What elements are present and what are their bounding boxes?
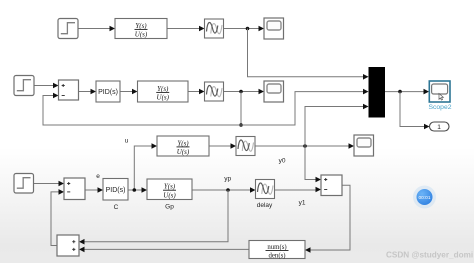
wire rsum out to numden: [311, 185, 351, 250]
wire bsum out to sum4 minus: [51, 192, 59, 246]
wire sine2 to scope row2: [224, 91, 259, 93]
transfer fcn TF3 Y(s)/U(s): [157, 136, 209, 156]
node y0 branch: [303, 144, 307, 148]
wire Gp to delay: [192, 189, 250, 191]
PID controller PID4 C: [103, 179, 128, 201]
wire mux to Scope2: [385, 91, 424, 93]
wire step2 to sum2: [34, 85, 53, 87]
scope Scope3: [354, 135, 374, 156]
wire step1 to TF1: [78, 28, 110, 30]
transfer fcn numden: [249, 241, 305, 260]
wire u branch to TF3: [134, 146, 151, 190]
transfer fcn Gp Y(s)/U(s): [147, 179, 192, 200]
node row2 branch: [239, 90, 243, 94]
node row1 branch: [246, 27, 250, 31]
output port 1: [430, 122, 450, 131]
sum block bsum: [57, 235, 79, 256]
wire sum4 to PID4: [85, 189, 98, 191]
svg-text:U(s): U(s): [177, 148, 190, 156]
sum block sum2: [59, 80, 79, 100]
scope Scope row2: [264, 81, 284, 102]
svg-text:y1: y1: [299, 199, 306, 206]
sine block ZOH1: [205, 19, 224, 38]
sine block delay: [256, 180, 275, 199]
wire PID2 to TF2: [120, 91, 132, 93]
scope Scope2 selected: [429, 81, 450, 102]
wire row2 feedback to sum2 minus: [43, 96, 241, 126]
step source 2: [14, 76, 34, 96]
svg-text:u: u: [125, 138, 129, 145]
step source 1: [58, 19, 78, 39]
PID controller PID2: [96, 81, 120, 102]
wire step3 to sum4: [34, 183, 59, 185]
transfer fcn TF1 Y(s)/U(s): [115, 19, 167, 39]
svg-text:U(s): U(s): [157, 94, 170, 102]
svg-text:e: e: [96, 173, 100, 180]
wire TF3 to sine3: [209, 145, 231, 147]
svg-text:C: C: [114, 204, 119, 211]
node u junction: [133, 188, 137, 192]
wire yp down to bsum top: [85, 190, 229, 242]
svg-text:Y(s): Y(s): [177, 139, 189, 147]
sum block rsum: [321, 175, 342, 196]
transfer fcn TF2 Y(s)/U(s): [138, 81, 189, 102]
svg-text:y0: y0: [279, 158, 286, 165]
wire y0 branch to rsum plus: [305, 146, 316, 180]
svg-text:den(s): den(s): [269, 253, 286, 260]
sine block ZOH2: [205, 82, 224, 101]
sum block sum4: [64, 178, 85, 200]
mux Mux1: [369, 67, 386, 118]
step source 3: [14, 174, 34, 194]
svg-text:num(s): num(s): [267, 244, 286, 251]
wire delay to rsum minus: [275, 189, 316, 191]
svg-text:Gp: Gp: [165, 204, 174, 211]
wire row1 branch to mux in1: [248, 29, 364, 77]
recording badge 00:01: [413, 186, 436, 209]
svg-text:U(s): U(s): [135, 31, 148, 39]
svg-text:delay: delay: [257, 202, 273, 209]
svg-text:U(s): U(s): [163, 191, 176, 199]
node yp junction: [226, 188, 230, 192]
svg-text:1: 1: [437, 124, 441, 131]
svg-text:CSDN @studyer_domi: CSDN @studyer_domi: [386, 251, 473, 260]
wire TF1 to sine1: [167, 28, 199, 30]
svg-text:00:01: 00:01: [418, 195, 430, 201]
wire TF2 to sine2: [188, 91, 199, 93]
svg-text:yp: yp: [224, 176, 231, 183]
wire row2 branch down: [240, 92, 242, 126]
wire sine1 to Scope1: [224, 28, 259, 30]
sine block ZOH3: [236, 137, 255, 156]
svg-text:Y(s): Y(s): [164, 183, 176, 191]
svg-text:PID(s): PID(s): [106, 187, 126, 194]
wire numden out to bsum bottom: [85, 248, 250, 250]
svg-text:PID(s): PID(s): [98, 89, 118, 96]
wire row2 low branch to mux in2: [241, 92, 363, 125]
wire sum2 to PID2: [79, 91, 91, 93]
svg-text:Y(s): Y(s): [157, 85, 169, 93]
wire mux out branch to out1: [400, 92, 424, 127]
node row2 low branch: [239, 123, 243, 127]
scope Scope1: [264, 18, 284, 39]
node mux out branch: [398, 90, 402, 94]
svg-text:Y(s): Y(s): [135, 22, 147, 30]
wire y0 branch to mux in3: [305, 107, 363, 147]
wire sine3 to Scope3: [255, 145, 349, 147]
svg-text:Scope2: Scope2: [428, 104, 451, 111]
wire PID4 to Gp: [128, 189, 142, 191]
